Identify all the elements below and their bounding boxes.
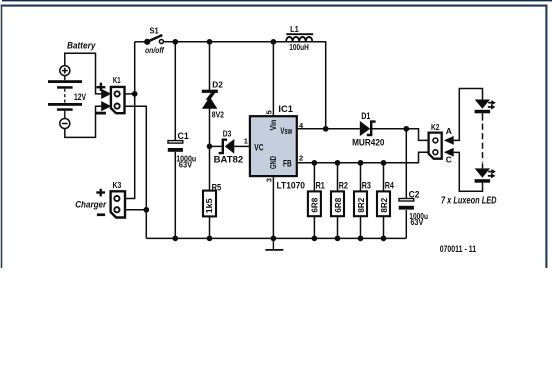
junction D1 C2 <box>403 126 409 132</box>
svg-text:D2: D2 <box>212 80 223 90</box>
junction rail R1 <box>312 236 318 242</box>
svg-text:on/off: on/off <box>145 46 165 55</box>
arrow K1 minus <box>101 101 111 111</box>
wire D2 branch top <box>209 42 211 90</box>
wire bottom rail <box>146 237 406 239</box>
svg-text:12V: 12V <box>74 92 86 102</box>
wire junction to R5 <box>209 146 211 190</box>
junction FB R4 <box>381 160 387 166</box>
svg-text:1k5: 1k5 <box>205 198 214 213</box>
wire top rail S1 to L1 <box>164 41 286 43</box>
svg-text:C2: C2 <box>409 190 420 200</box>
svg-text:1: 1 <box>244 137 248 146</box>
svg-text:8R2: 8R2 <box>380 197 389 212</box>
LED 2 <box>475 168 496 182</box>
junction rail R3 <box>358 236 364 242</box>
wire LED1 bottom stub <box>482 113 484 120</box>
wire battery minus to K1 <box>65 106 102 137</box>
svg-text:Charger: Charger <box>75 200 107 210</box>
wire R3 bottom <box>360 216 362 238</box>
wire K2 pin A to LED1 <box>454 89 483 141</box>
arrow K1 plus <box>101 89 111 99</box>
svg-text:L1: L1 <box>290 25 299 34</box>
junction D2 D3 <box>207 144 213 150</box>
junction L1 Vsw <box>323 126 329 132</box>
label plus K1 <box>97 83 106 91</box>
svg-text:8R2: 8R2 <box>357 197 366 212</box>
svg-text:R4: R4 <box>385 180 394 190</box>
junction K3 bottom <box>143 207 149 213</box>
wire R5 to rail <box>209 216 211 238</box>
op IC1 LT1070 box <box>250 116 297 176</box>
wire R1 bottom <box>313 216 315 238</box>
arrow K2 A <box>444 136 454 145</box>
svg-text:5: 5 <box>265 110 274 114</box>
wire C1 branch top <box>174 42 176 141</box>
switch S1 <box>144 35 163 45</box>
wire K1 bottom pin down to bottom rail <box>125 106 147 238</box>
junction rail R4 <box>381 236 387 242</box>
svg-text:R2: R2 <box>339 180 348 190</box>
svg-text:7 x Luxeon LED: 7 x Luxeon LED <box>441 195 497 206</box>
svg-text:2: 2 <box>299 153 303 162</box>
wire IC1 pin 5 Vin <box>272 42 274 116</box>
svg-text:63V: 63V <box>179 161 193 170</box>
resistor R4 <box>377 191 390 216</box>
wire D2 to D3 junction <box>209 108 211 147</box>
label minus K1 <box>96 112 106 115</box>
svg-text:Vin: Vin <box>268 120 278 131</box>
svg-text:6R8: 6R8 <box>334 197 343 212</box>
svg-text:C: C <box>446 155 452 165</box>
junction rail C1 <box>172 236 178 242</box>
junction FB R2 <box>335 160 341 166</box>
connector K2 <box>429 133 442 159</box>
svg-text:D3: D3 <box>223 130 232 139</box>
wire C2 branch top <box>405 129 407 199</box>
svg-text:R3: R3 <box>362 180 371 190</box>
svg-text:100uH: 100uH <box>289 43 309 52</box>
wire C1 branch bottom <box>174 152 176 239</box>
wire K3 bottom pin <box>125 209 146 211</box>
wire K1 top pin <box>125 93 135 95</box>
svg-text:K3: K3 <box>113 180 122 190</box>
svg-text:070011 - 11: 070011 - 11 <box>440 244 476 254</box>
svg-text:8V2: 8V2 <box>212 109 224 119</box>
junction rail GND <box>271 236 277 242</box>
wire battery plus to K1 <box>65 53 102 94</box>
svg-text:R1: R1 <box>316 180 325 190</box>
svg-text:K1: K1 <box>113 75 121 85</box>
capacitor C2 <box>399 199 414 210</box>
svg-text:LT1070: LT1070 <box>277 180 306 191</box>
zener diode D2 <box>202 90 218 109</box>
svg-text:Battery: Battery <box>67 41 96 51</box>
resistor R3 <box>354 191 367 216</box>
svg-text:S1: S1 <box>150 26 160 35</box>
svg-text:63V: 63V <box>410 218 423 227</box>
border frame <box>1 5 548 268</box>
wire C2 branch bottom <box>405 210 407 238</box>
junction K1 top <box>132 91 138 97</box>
wire LED2 top stub <box>482 163 484 168</box>
wire R2 bottom <box>337 216 339 238</box>
junction D2 top <box>207 39 213 45</box>
label minus K3 <box>97 213 105 216</box>
label plus K3 <box>96 189 105 197</box>
svg-text:K2: K2 <box>431 122 440 132</box>
resistor R2 <box>331 191 344 216</box>
wire R4 bottom <box>383 216 385 238</box>
wire R2 top <box>337 163 339 192</box>
junction S1-C1 <box>172 39 178 45</box>
junction rail R5 <box>207 236 213 242</box>
svg-text:3: 3 <box>265 178 274 182</box>
junction FB R3 <box>358 160 364 166</box>
battery B1 <box>48 66 82 129</box>
junction rail R2 <box>335 236 341 242</box>
inductor L1 <box>286 34 313 42</box>
wire left vertical S1 to K3 <box>125 42 135 199</box>
svg-text:6R8: 6R8 <box>311 197 320 212</box>
svg-text:VC: VC <box>254 143 264 153</box>
schottky diode D3 <box>219 139 235 154</box>
svg-text:D1: D1 <box>361 111 370 121</box>
wire FB pin 2 rail <box>297 152 429 163</box>
svg-text:BAT82: BAT82 <box>214 154 244 165</box>
capacitor C1 <box>168 141 183 152</box>
resistor R5 <box>203 191 216 217</box>
wire D3 left stub <box>210 145 222 147</box>
svg-text:R5: R5 <box>212 182 222 192</box>
wire under L1 and right corner down to Vsw <box>286 42 326 129</box>
svg-text:FB: FB <box>283 158 292 168</box>
svg-text:C1: C1 <box>178 131 189 141</box>
wire R1 top <box>313 163 315 192</box>
connector K3 <box>111 191 125 217</box>
wire Vsw pin 4 to D1 <box>297 128 360 130</box>
svg-text:A: A <box>446 126 452 136</box>
wire R3 top <box>360 163 362 192</box>
top edge line <box>2 0 552 1</box>
diode D1 MUR420 <box>360 121 376 136</box>
wire IC1 pin 3 GND to rail <box>272 176 274 238</box>
LED 1 <box>475 100 496 114</box>
ground <box>265 238 283 250</box>
svg-text:Vsw: Vsw <box>280 126 292 136</box>
wire dashed LED string <box>482 124 484 163</box>
connector K1 <box>111 87 125 113</box>
svg-text:MUR420: MUR420 <box>352 137 384 148</box>
wire LED2 bottom to K2 pin C <box>454 152 483 191</box>
junction FB R1 <box>312 160 318 166</box>
arrow K2 C <box>444 148 454 157</box>
wire S1 left stub <box>135 41 145 43</box>
svg-text:IC1: IC1 <box>278 104 293 114</box>
wire D1 cathode to K2 corner <box>372 129 428 141</box>
resistor R1 <box>308 191 321 216</box>
svg-text:GND: GND <box>268 156 278 169</box>
junction Vin top <box>271 39 277 45</box>
wire D3 to IC1 VC pin 1 <box>234 145 250 147</box>
wire R4 top <box>383 163 385 192</box>
